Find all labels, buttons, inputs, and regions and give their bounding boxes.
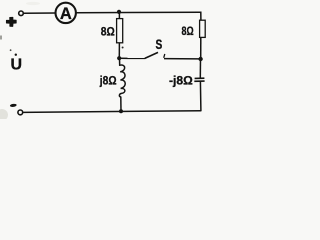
- svg-text:j8Ω: j8Ω: [99, 74, 117, 88]
- terminal T2 (bottom-left, -): [18, 110, 23, 115]
- scan smudge bottom-left corner: [0, 109, 8, 121]
- svg-text:8Ω: 8Ω: [182, 26, 194, 38]
- svg-text:A: A: [60, 5, 72, 23]
- wire: top-right corner down to R2: [199, 12, 201, 20]
- inductor L j8ohm (coil): [119, 65, 125, 97]
- svg-text:-j8Ω: -j8Ω: [169, 74, 193, 88]
- resistor R 8ohm (left): [117, 19, 123, 43]
- noise speck above U: [10, 49, 12, 51]
- minus polarity mark: [10, 103, 17, 107]
- bottom wire: right corner to terminal: [23, 111, 201, 113]
- wire: node down to coil: [119, 58, 121, 66]
- switch wire: contact to right node: [164, 58, 199, 60]
- capacitor bottom plate: [194, 80, 204, 82]
- wire: coil to bottom node: [120, 97, 122, 112]
- switch S blade (open): [145, 52, 158, 58]
- wire: terminal to ammeter: [23, 12, 56, 14]
- capacitor C -j8ohm : top plate: [195, 77, 205, 79]
- scan smudge left edge: [0, 36, 2, 40]
- node: right switch junction: [198, 57, 202, 61]
- svg-text:8Ω: 8Ω: [101, 24, 115, 38]
- wire: ammeter to top-right corner: [75, 11, 200, 14]
- node: top of left branch: [117, 10, 121, 14]
- overdot of U: [15, 54, 17, 56]
- wire: node down to capacitor: [199, 59, 201, 78]
- noise speck near node: [122, 47, 124, 49]
- node: left switch junction: [117, 56, 121, 60]
- plus polarity mark: [7, 17, 17, 26]
- node: bottom junction: [119, 109, 123, 113]
- ammeter A: [55, 3, 75, 23]
- wire: capacitor to bottom-right corner: [200, 81, 201, 111]
- resistor R 8ohm (right): [200, 20, 206, 37]
- wire: R2 to right switch node: [200, 37, 202, 59]
- paper background: [0, 0, 230, 119]
- svg-text:U: U: [11, 56, 23, 73]
- terminal T1 (top-left, +): [19, 11, 24, 16]
- svg-text:S: S: [156, 36, 163, 52]
- switch right contact tick: [164, 54, 165, 58]
- wire: R1 to switch node: [118, 43, 120, 58]
- wire: top node down to R1: [118, 12, 120, 19]
- switch wire: left node to blade pivot: [119, 57, 145, 59]
- scan smudge above top wire: [26, 2, 40, 5]
